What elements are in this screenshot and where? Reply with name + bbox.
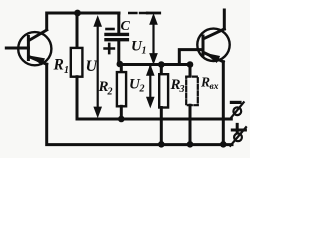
svg-text:C: C [121, 19, 131, 34]
label minus terminal [231, 101, 240, 104]
node C bottom / R2 top [117, 61, 124, 68]
wire base jog VT2 [179, 50, 203, 65]
node R1 top [74, 10, 81, 17]
resistor R2 [117, 65, 126, 120]
label U2 [129, 77, 145, 95]
node Rvx bottom [187, 141, 194, 148]
svg-text:1: 1 [142, 46, 147, 57]
voltage arrow U [94, 17, 101, 117]
svg-text:3: 3 [179, 84, 185, 95]
resistor R3 [159, 65, 168, 144]
label R2 [98, 79, 113, 98]
svg-text:вх: вх [210, 82, 219, 92]
label minus of C [107, 28, 114, 31]
label Rvx [200, 75, 219, 93]
transistor VT1 [6, 30, 51, 65]
node R2 bottom [118, 116, 125, 123]
dashed line U1 reference [129, 12, 147, 14]
label U1 [131, 39, 147, 57]
resistor R1 [71, 13, 83, 119]
capacitor C [106, 13, 127, 65]
label C [121, 19, 131, 34]
label plus of C [105, 44, 114, 53]
node VT2 emitter bottom [220, 141, 227, 148]
label U [86, 58, 99, 75]
label plus terminal [232, 124, 245, 131]
node Rvx top [187, 61, 194, 68]
transistor VT2 [197, 10, 229, 62]
wire top rail [47, 13, 119, 30]
terminal minus [231, 102, 244, 118]
svg-text:R: R [53, 57, 64, 74]
svg-text:U: U [86, 58, 99, 75]
svg-text:1: 1 [64, 65, 69, 76]
terminal plus [230, 127, 246, 146]
svg-text:2: 2 [139, 84, 145, 95]
node R3 bottom [158, 141, 165, 148]
label R1 [53, 57, 70, 77]
wire VT2 emitter down [222, 62, 225, 144]
resistor Rvx dashed [186, 65, 198, 144]
svg-text:2: 2 [107, 87, 113, 98]
wire VT1 emitter down and bottom rail [47, 64, 232, 144]
label R3 [170, 77, 185, 95]
voltage arrow U2 [147, 66, 154, 108]
wire inner rail [77, 118, 231, 121]
node R3 top [158, 61, 165, 68]
wire output node [119, 63, 191, 66]
voltage arrow U1 [147, 13, 159, 63]
svg-text:R: R [200, 75, 210, 90]
